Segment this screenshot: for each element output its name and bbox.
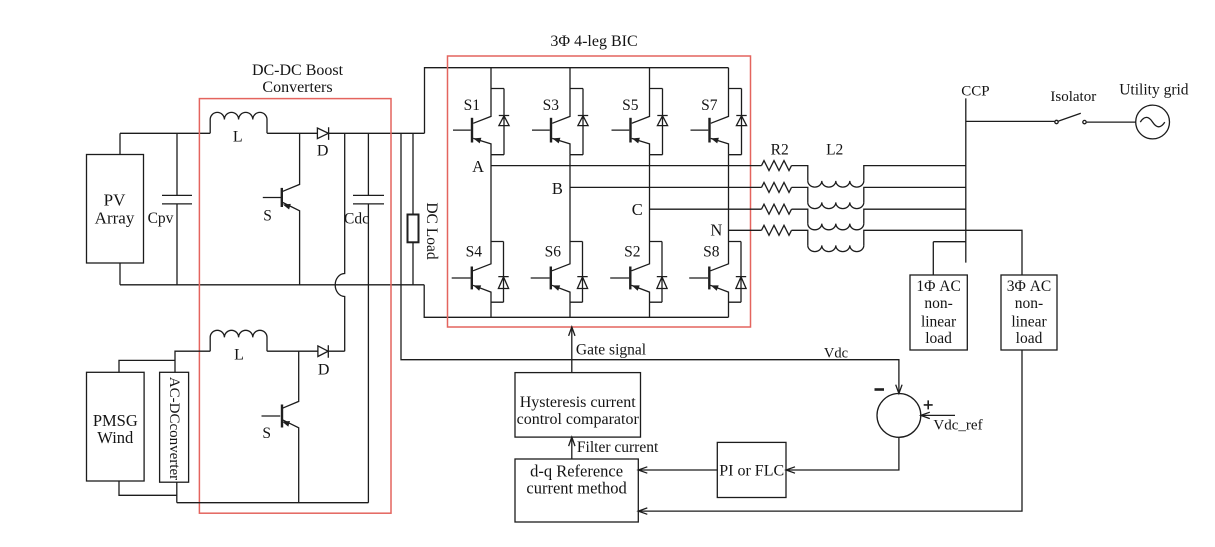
svg-text:AC-DCconverter: AC-DCconverter [166, 377, 182, 480]
svg-text:Gate signal: Gate signal [576, 341, 646, 358]
wire lower boost output riser with hop over DC- rail [335, 133, 345, 351]
wire lower boost bottom rail [177, 502, 369, 504]
diode D (lower boost) [318, 345, 328, 358]
AC-DC converter box [160, 372, 189, 482]
PMSG Wind box [87, 372, 145, 481]
inductor L (lower boost) [210, 330, 267, 351]
svg-text:CCP: CCP [961, 84, 989, 100]
wire DC- rail to BIC bottom rail [424, 285, 728, 318]
utility grid source [1136, 105, 1170, 139]
svg-text:load: load [925, 330, 952, 347]
red box 3-phase 4-leg BIC [448, 56, 751, 327]
svg-text:L: L [234, 347, 244, 364]
svg-text:DC-DC Boost: DC-DC Boost [252, 62, 344, 79]
svg-text:A: A [472, 157, 484, 176]
svg-text:B: B [552, 179, 563, 198]
svg-text:Isolator: Isolator [1050, 89, 1096, 105]
svg-text:DC Load: DC Load [423, 202, 440, 260]
svg-text:S1: S1 [464, 97, 480, 114]
transistor switch S7 with freewheel diode [691, 68, 747, 155]
d-q reference current method box [515, 459, 638, 522]
PI or FLC box [717, 442, 786, 497]
capacitor Cdc [353, 133, 384, 502]
inductor L2 phase N [792, 230, 808, 245]
svg-text:PV: PV [104, 191, 126, 210]
svg-text:load: load [1016, 330, 1043, 347]
wire AC-DC bottom riser [176, 482, 178, 503]
arrowhead Vdc into summer [896, 385, 902, 394]
svg-text:Cpv: Cpv [148, 210, 174, 227]
resistor R2 phase C [762, 204, 792, 214]
1-phase AC non-linear load box [910, 275, 967, 350]
transistor switch S2 with freewheel diode [610, 242, 667, 318]
svg-text:Hysteresis current: Hysteresis current [520, 394, 637, 411]
node B phase line [570, 186, 762, 188]
svg-text:Vdc: Vdc [824, 345, 848, 361]
transistor switch S4 with freewheel diode [452, 242, 509, 318]
wire Vdc sense [401, 133, 899, 393]
resistor R2 phase A [762, 161, 792, 171]
svg-text:d-q Reference: d-q Reference [530, 461, 623, 480]
wire AC-DC top riser [175, 351, 210, 372]
wire DC+ rail to BIC top rail [425, 68, 729, 134]
diode D (top boost) [317, 127, 328, 140]
wire summer output to PI [786, 437, 899, 470]
svg-text:R2: R2 [771, 141, 789, 158]
wire leg2 midsection [569, 155, 571, 242]
svg-text:S6: S6 [545, 244, 562, 261]
svg-text:PMSG: PMSG [93, 411, 138, 430]
svg-text:linear: linear [1011, 314, 1047, 331]
wire isolator to grid [1087, 121, 1136, 123]
svg-text:L: L [233, 128, 243, 145]
svg-text:non-: non- [924, 295, 952, 312]
wire Vdc_ref into summer [921, 414, 955, 416]
svg-text:non-: non- [1015, 295, 1043, 312]
wire DC- bottom rail [120, 284, 424, 286]
DC load resistor [412, 133, 414, 284]
summing junction [877, 394, 921, 438]
svg-text:Wind: Wind [97, 428, 134, 447]
node CCP bus [965, 98, 967, 262]
wire hysteresis to BIC (gate signal) [571, 328, 573, 373]
plus sign [924, 400, 933, 409]
node C phase line [650, 208, 762, 210]
svg-text:S8: S8 [703, 244, 720, 261]
wire lower boost top [267, 350, 345, 352]
wire leg3 midsection [649, 155, 651, 242]
node N phase line [729, 229, 762, 231]
wire PV bottom riser [119, 263, 121, 285]
isolator switch [1055, 120, 1058, 123]
3-phase AC non-linear load box [1001, 275, 1057, 350]
svg-text:S2: S2 [624, 244, 640, 261]
transistor switch S8 with freewheel diode [689, 242, 746, 318]
transistor switch S5 with freewheel diode [612, 68, 668, 155]
transistor switch S1 with freewheel diode [453, 68, 509, 155]
wire PV top riser [119, 133, 121, 154]
inductor L (top boost) [210, 112, 267, 133]
svg-text:current method: current method [526, 479, 627, 498]
svg-text:L2: L2 [826, 141, 843, 158]
transistor S (lower boost) [262, 351, 299, 503]
svg-text:S3: S3 [543, 97, 560, 114]
svg-text:linear: linear [921, 314, 957, 331]
wire 1-phase load tap [933, 242, 966, 275]
hysteresis current control comparator box [515, 373, 641, 438]
resistor R2 phase N [762, 225, 792, 235]
svg-text:D: D [318, 362, 330, 379]
wire leg1 midsection [490, 155, 492, 242]
minus sign [875, 388, 885, 391]
svg-text:S: S [263, 208, 272, 225]
svg-text:PI or FLC: PI or FLC [719, 462, 784, 479]
transistor switch S6 with freewheel diode [531, 242, 588, 318]
svg-text:D: D [317, 143, 329, 160]
transistor switch S3 with freewheel diode [532, 68, 588, 155]
svg-text:3Φ AC: 3Φ AC [1007, 278, 1052, 295]
wire DC+ top rail [120, 132, 425, 134]
svg-text:1Φ AC: 1Φ AC [916, 278, 961, 295]
arrowhead into d-q block lower [638, 508, 647, 514]
resistor R2 phase B [762, 182, 792, 192]
svg-text:C: C [632, 200, 643, 219]
wire PI to d-q block [638, 469, 717, 471]
inductor L2 phase B [792, 187, 808, 202]
svg-text:S4: S4 [466, 244, 483, 261]
wire CCP to isolator [966, 120, 1055, 122]
svg-text:Utility grid: Utility grid [1119, 82, 1189, 99]
inductor L2 phase A [792, 166, 808, 181]
PV Array box [87, 155, 144, 264]
inductor L2 phase C [792, 209, 808, 223]
svg-text:Array: Array [95, 209, 135, 228]
wire 3-phase load to d-q block [638, 350, 1022, 511]
svg-text:control comparator: control comparator [517, 411, 640, 428]
svg-text:3Φ 4-leg BIC: 3Φ 4-leg BIC [550, 33, 637, 50]
svg-text:S: S [262, 425, 271, 442]
wire PMSG bottom to AC-DC [119, 481, 177, 495]
svg-text:Cdc: Cdc [344, 211, 369, 228]
red box DC-DC boost converters [199, 99, 391, 514]
svg-text:Filter current: Filter current [577, 439, 659, 456]
svg-text:S7: S7 [701, 97, 718, 114]
svg-text:N: N [710, 221, 722, 240]
wire PMSG top to AC-DC [119, 360, 175, 372]
svg-text:S5: S5 [622, 97, 639, 114]
wire d-q to hysteresis (filter current) [571, 437, 573, 459]
svg-text:Vdc_ref: Vdc_ref [933, 417, 982, 433]
capacitor Cpv [162, 133, 192, 284]
svg-text:Converters: Converters [262, 79, 332, 96]
node A phase line [491, 165, 762, 167]
transistor S (top boost) [263, 133, 300, 284]
wire leg4 midsection [728, 155, 730, 242]
